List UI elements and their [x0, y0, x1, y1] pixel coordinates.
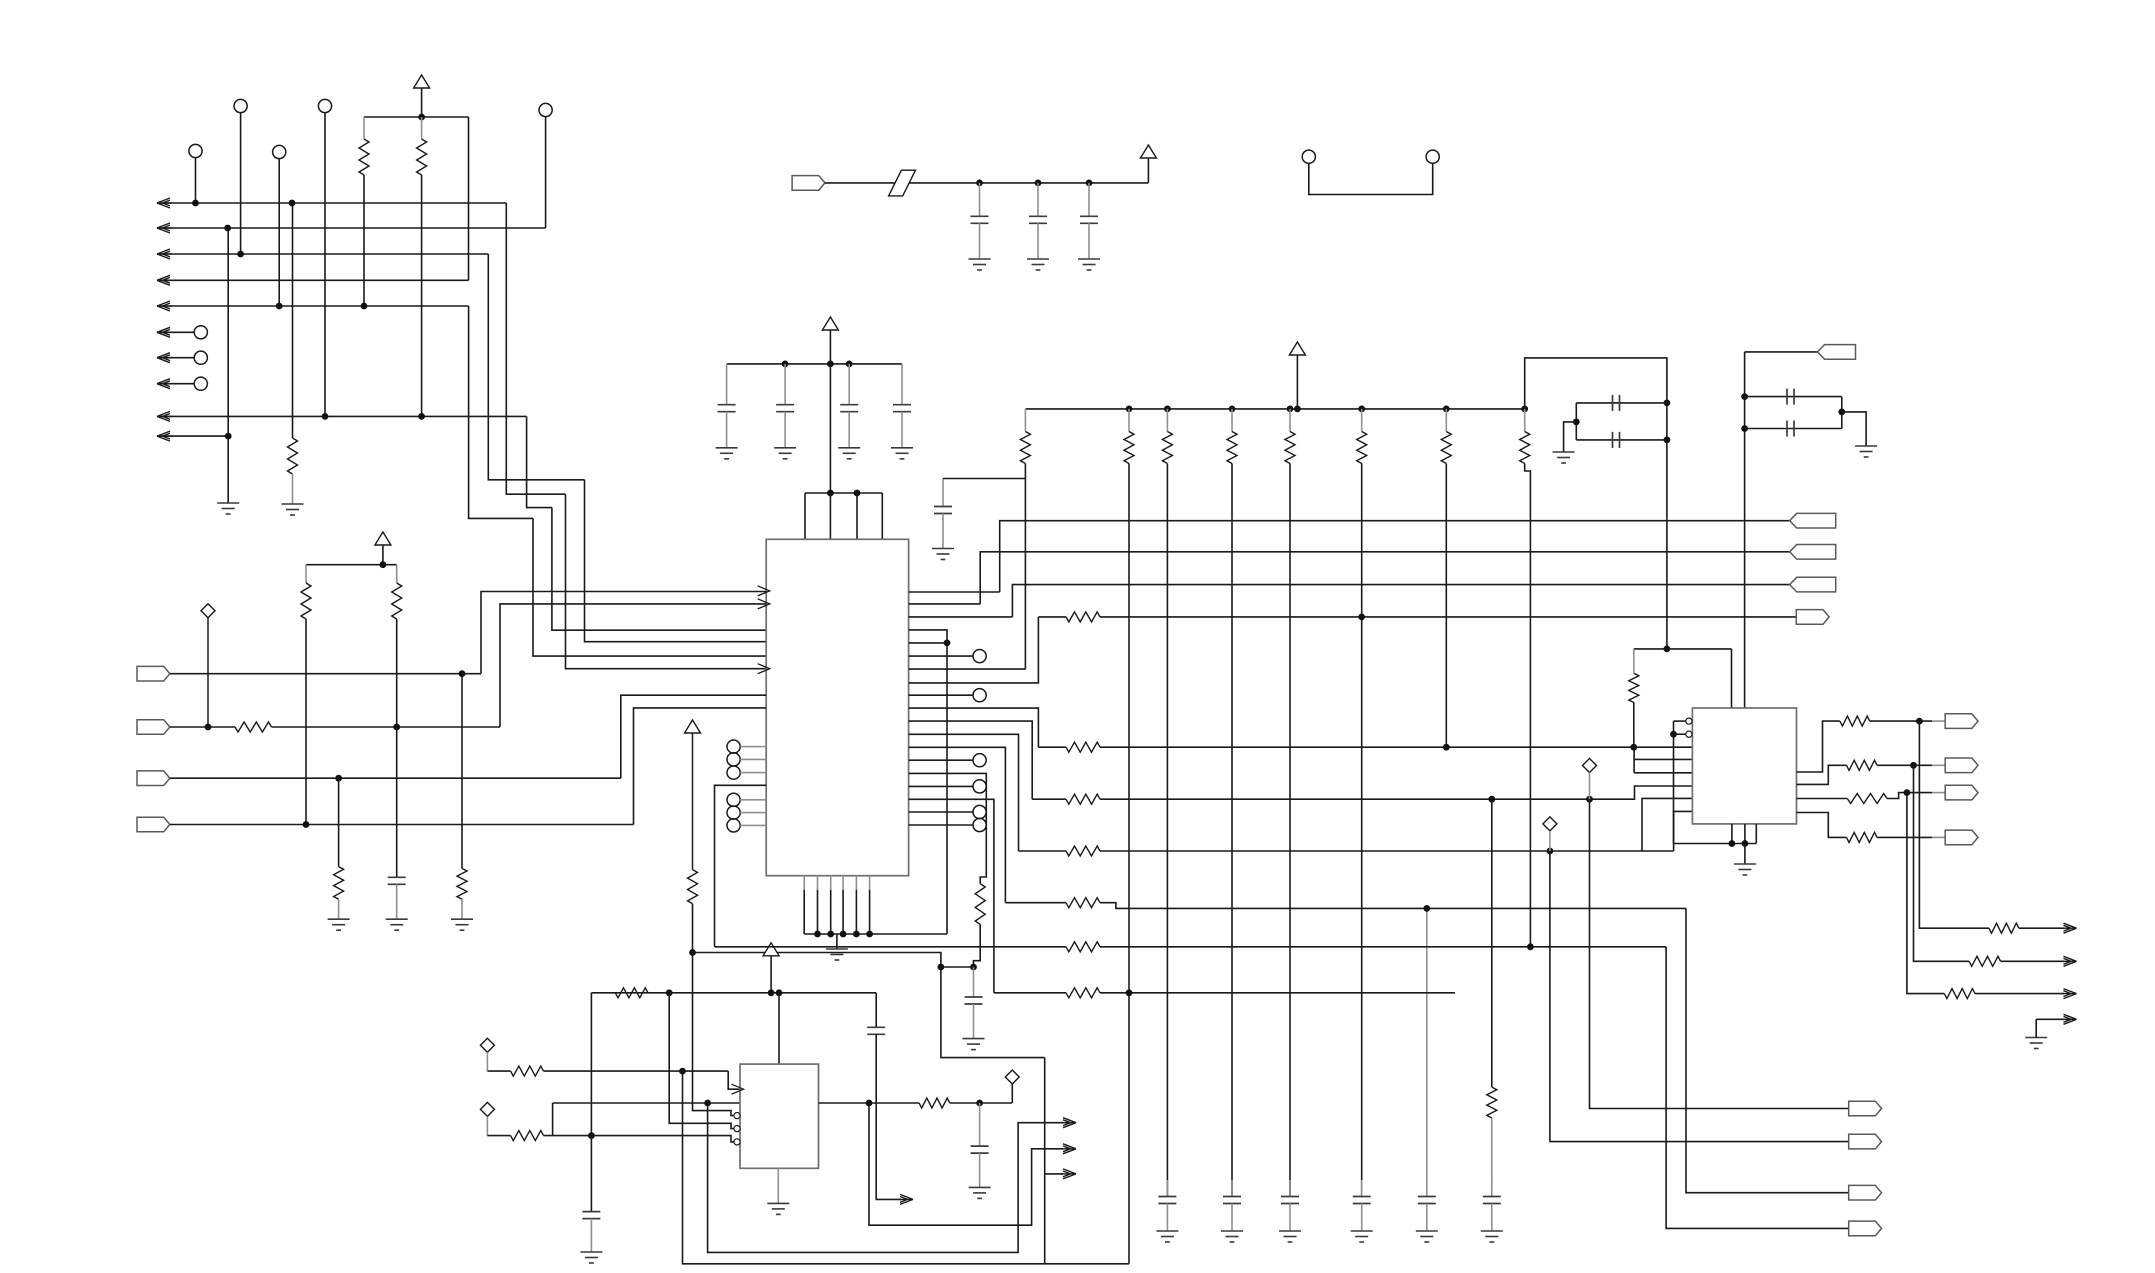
wire enable col [1673, 721, 1675, 843]
off-page diamond D6 [480, 1102, 494, 1116]
junction [666, 989, 673, 996]
power VCC U1 [822, 317, 838, 330]
wire U3 top pin1 [1731, 649, 1733, 708]
ground [1027, 259, 1049, 270]
wire C10 to col1 [943, 478, 1025, 480]
net tag in1 [137, 666, 170, 681]
wire gnd stem [1744, 844, 1746, 865]
ground [1221, 1231, 1243, 1242]
wire cap pair left [1575, 403, 1577, 440]
wire bubble2 [1674, 733, 1686, 735]
wire line4 [157, 279, 469, 281]
wire U1 pin to row6 [715, 785, 767, 947]
junction [1741, 425, 1748, 432]
resistor R10 [511, 1066, 544, 1076]
wire U1 rpin1 [909, 591, 1000, 593]
wire line6 staircase [527, 416, 552, 507]
ground [1416, 1231, 1438, 1242]
ground [451, 919, 473, 930]
wire NC stub [157, 383, 194, 385]
junction [418, 413, 425, 420]
resistor rail R25 [1361, 409, 1363, 432]
terminal TP1 [234, 99, 247, 112]
capacitor C15 plates [1613, 395, 1620, 411]
capacitor bank top [979, 183, 981, 216]
ground U3 [1734, 864, 1756, 875]
off-page diamond D1 [201, 604, 215, 618]
junction [361, 303, 368, 310]
wire [1877, 836, 1932, 838]
resistor zig [1357, 432, 1367, 464]
arrow line7 [157, 431, 172, 441]
capacitor C [1080, 216, 1098, 223]
wire U2 pin2 line [553, 1102, 740, 1104]
wire gnd stem [836, 934, 838, 949]
junction [1527, 943, 1534, 950]
junction [1126, 406, 1133, 413]
wire out1 branch [1919, 721, 1989, 928]
net tag row6 [1849, 1221, 1882, 1236]
junction [976, 180, 983, 187]
wire to U1 pin5 [533, 518, 766, 656]
terminal TP5 [273, 145, 286, 158]
resistor row5 [1066, 898, 1100, 908]
arrow line1 [157, 198, 172, 208]
wire vcc to U1 [829, 364, 831, 493]
junction [459, 670, 466, 677]
wire row6 a [715, 946, 1067, 948]
wire line1 staircase [506, 203, 565, 494]
capacitor C12 [590, 1136, 592, 1212]
terminal NC [194, 377, 207, 390]
terminal [973, 689, 986, 702]
capacitor C18 plates [1787, 421, 1794, 437]
junction [289, 200, 296, 207]
wire cap pair right [1841, 397, 1843, 429]
resistor R4 zig [301, 583, 311, 619]
wire diamondA to tag [1590, 799, 1849, 1108]
wire [1870, 720, 1932, 722]
junction [1547, 848, 1554, 855]
wire row2 a [1038, 746, 1066, 748]
wire pullup node [693, 953, 941, 968]
wire rail to U3 feed [1525, 358, 1667, 649]
wire [487, 1135, 510, 1137]
capacitor C [718, 405, 736, 412]
inverted pin bubble U2 [734, 1113, 740, 1119]
capacitor plates [1353, 1197, 1371, 1204]
resistor R18 [1847, 760, 1878, 770]
clock pin mark U1 [758, 586, 770, 596]
capacitor column [1426, 1180, 1428, 1197]
wire to GND1 [227, 228, 229, 503]
junction [1086, 180, 1093, 187]
capacitor column [1491, 1180, 1493, 1197]
junction [1423, 905, 1430, 912]
wire clk out1 [708, 1103, 1063, 1252]
wire to U3 pin6 [1674, 811, 1693, 851]
wire col2 low [1128, 993, 1130, 1264]
junction [1287, 406, 1294, 413]
net tag out1 [1945, 714, 1978, 729]
wire node column [1044, 1058, 1046, 1264]
wire to U3 pin5 [1642, 798, 1692, 851]
wire rail down to line4 [468, 117, 470, 280]
wire line2 [157, 227, 546, 229]
terminal [973, 780, 986, 793]
junction [827, 490, 834, 497]
junction [1664, 646, 1671, 653]
wire net tagB [980, 552, 1789, 604]
arrow line5 [157, 301, 172, 311]
power VCC U2 [763, 943, 779, 956]
wire U1 rpin13 to row5 [909, 747, 1006, 902]
resistor R22 [1847, 832, 1878, 842]
junction [1488, 796, 1495, 803]
capacitor C16 plates [1613, 432, 1620, 448]
junction [224, 225, 231, 232]
resistor R1 [363, 117, 365, 139]
wire row2 drop [1633, 747, 1635, 773]
ground [1481, 1231, 1503, 1242]
capacitor C [893, 405, 911, 412]
clock pin mark U1 [758, 599, 770, 609]
resistor R12 [688, 870, 698, 904]
wire [1745, 396, 1842, 398]
wire tag feed [1745, 351, 1818, 353]
resistor R7 zig [457, 868, 467, 899]
wire [2001, 960, 2064, 962]
terminal [973, 650, 986, 663]
resistor zig [1020, 432, 1030, 464]
terminal NC [194, 351, 207, 364]
net tag out2 [1945, 758, 1978, 773]
capacitor C [1029, 216, 1047, 223]
inverted pin bubble U3 [1686, 718, 1692, 724]
wire U1 rpin6 [909, 655, 973, 657]
wire U3 bpin1 [1731, 824, 1733, 844]
ground [963, 1039, 985, 1050]
wire row5 b [1100, 903, 1686, 909]
wire [1745, 428, 1842, 430]
junction [1664, 400, 1671, 407]
wire osc clk line [544, 1070, 729, 1072]
net tag row1 [1796, 610, 1829, 625]
terminal [973, 754, 986, 767]
arrow line2 [157, 223, 172, 233]
resistor R15 zig [1487, 1087, 1497, 1118]
resistor R14 [1633, 649, 1635, 674]
resistor row4 [1066, 846, 1100, 856]
power VCC rail [1289, 342, 1305, 355]
capacitor C17 plates [1787, 389, 1794, 405]
wire line7 [157, 435, 228, 437]
wire U1 rpin17 to row7 [909, 799, 994, 993]
wire jumper [1309, 163, 1433, 194]
wire U1 rpin10 to row2 [909, 708, 1039, 747]
capacitor plates [1281, 1197, 1299, 1204]
wire R8 to node [974, 924, 981, 967]
junction [1443, 406, 1450, 413]
wire line5 staircase [469, 306, 533, 518]
capacitor C11 plates [867, 1027, 885, 1034]
wire to U3 pin2 [1634, 758, 1692, 760]
wire stem [1296, 355, 1298, 409]
power VCC top-left [414, 75, 430, 88]
wire U1 vcc rail [727, 363, 902, 365]
wire in4 [170, 824, 634, 826]
wire to diamond [1011, 1084, 1013, 1103]
junction [1586, 796, 1593, 803]
wire NC stub [157, 357, 194, 359]
wire [2036, 1018, 2064, 1020]
wire U1 rpin2 [909, 603, 981, 605]
wire in2 a [170, 726, 235, 728]
capacitor C12 plates [582, 1212, 600, 1219]
capacitor C9 [973, 967, 975, 997]
wire into U2 clk [728, 1071, 740, 1089]
net tag row5 [1849, 1185, 1882, 1200]
ground [386, 919, 408, 930]
wire in2 b [272, 726, 501, 728]
terminal TP3 [539, 103, 552, 116]
wire U3 out4 [1797, 813, 1847, 838]
wire [487, 1070, 510, 1072]
wire U3 out2 [1797, 765, 1847, 784]
junction [1294, 406, 1301, 413]
wire pullup rail [364, 116, 469, 118]
capacitor C [776, 405, 794, 412]
resistor rail R27 [1524, 409, 1526, 432]
resistor R3 zig [288, 438, 298, 474]
arrow clk out1 [1061, 1118, 1076, 1128]
wire row5 cap col [1426, 908, 1428, 1182]
wire [1576, 439, 1667, 441]
capacitor plates [1158, 1197, 1176, 1204]
wire U1 rpin9 [909, 694, 973, 696]
resistor rail R24 [1289, 409, 1291, 432]
net tag in4 [137, 817, 170, 832]
wire C11 to arrow [876, 1035, 901, 1200]
arrow line6 [157, 411, 172, 421]
resistor zig [1441, 432, 1451, 464]
junction [237, 251, 244, 258]
ground [1553, 452, 1575, 463]
resistor rail R21 [1128, 409, 1130, 432]
wire to U2 bubble3 [591, 1136, 734, 1142]
wire node down [941, 967, 1045, 1058]
junction [1229, 406, 1236, 413]
wire row3 b to U3 pin4 [1100, 786, 1692, 799]
off-page diamond D5 [480, 1038, 494, 1052]
junction [689, 949, 696, 956]
capacitor column [1361, 1180, 1363, 1197]
wire to U3 pin3 [1634, 772, 1692, 774]
off-page diamond D7 [1005, 1070, 1019, 1084]
resistor row6 [1066, 942, 1100, 952]
capacitor U1 vcc [784, 364, 786, 405]
junction [776, 989, 783, 996]
capacitor column [1289, 1180, 1291, 1197]
junction [782, 361, 789, 368]
wire [2035, 1019, 2037, 1037]
ground [1351, 1231, 1373, 1242]
junction [1741, 393, 1748, 400]
ground GND1 [217, 503, 239, 514]
wire xtal col [590, 993, 592, 1136]
power VCC top-center [1140, 145, 1156, 158]
junction [1630, 744, 1637, 751]
inverted pin bubble U2 [734, 1126, 740, 1132]
resistor R7b zig [334, 867, 344, 900]
wire to U2 bubble1 [693, 953, 734, 1116]
ground [1279, 1231, 1301, 1242]
wire to gnd [1842, 412, 1866, 446]
resistor R17 [1989, 923, 2019, 933]
capacitor C13 plates [971, 1146, 989, 1153]
resistor row1 [1066, 612, 1100, 622]
resistor R8 [975, 884, 985, 925]
junction [1521, 406, 1528, 413]
junction [768, 989, 775, 996]
resistor R16 [1840, 716, 1870, 726]
terminal U1 NC [727, 753, 740, 766]
inverted pin bubble U2 [734, 1139, 740, 1145]
wire row3 a [1032, 798, 1066, 800]
resistor R13 [919, 1098, 950, 1108]
ground [891, 448, 913, 459]
wire U1 rpin7 [909, 668, 1026, 670]
wire stem [829, 330, 831, 364]
arrow out2 [2062, 956, 2077, 966]
arrow clk out2 [1061, 1144, 1076, 1154]
off-page diamond DB [1543, 817, 1557, 831]
junction [303, 821, 310, 828]
wire [950, 1102, 1013, 1104]
wire col8 jog down [1525, 464, 1531, 948]
wire TP3 down [545, 117, 547, 228]
wire NC stub [157, 331, 194, 333]
IC U3 [1692, 708, 1796, 824]
wire stem [1147, 158, 1149, 183]
terminal U1 NC [727, 740, 740, 753]
junction [827, 931, 834, 938]
wire [1975, 993, 2064, 995]
wire U1 rpin3 [909, 616, 1013, 618]
wire [544, 1135, 592, 1137]
wire row6 to tag [1666, 947, 1849, 1229]
junction [225, 433, 232, 440]
junction [322, 413, 329, 420]
resistor row3 [1066, 794, 1100, 804]
wire to R3 [292, 203, 294, 438]
junction [866, 931, 873, 938]
junction [1729, 840, 1736, 847]
resistor R19 [1969, 956, 2001, 966]
wire [1877, 764, 1932, 766]
wire to U1 pin4 [585, 480, 767, 642]
junction [1742, 840, 1749, 847]
junction [1664, 437, 1671, 444]
wire row7 b [1100, 992, 1455, 994]
wire row7 a [994, 992, 1066, 994]
terminal J1-B [1426, 150, 1439, 163]
arrow line4 [157, 275, 172, 285]
wire U1 top pin [881, 493, 883, 539]
junction [192, 200, 199, 207]
junction [205, 724, 212, 731]
capacitor C [840, 405, 858, 412]
resistor R2 [421, 117, 423, 139]
junction [1164, 406, 1171, 413]
junction [276, 303, 283, 310]
clock pin mark U1 [758, 664, 770, 674]
inverted pin bubble U3 [1686, 731, 1692, 737]
junction [1443, 744, 1450, 751]
resistor R5 [396, 565, 398, 583]
wire row4 a [1019, 850, 1067, 852]
arrow line3 [157, 249, 172, 259]
junction [976, 1100, 983, 1107]
junction [1035, 180, 1042, 187]
wire clk bottom route [683, 1071, 1130, 1264]
ground U2 [767, 1203, 789, 1214]
wire to U1 pin6 [566, 494, 767, 669]
wire in1 to U1 pin1 [481, 592, 766, 674]
capacitor bank top [1037, 183, 1039, 216]
wire U1 rpin15 to R8 [909, 773, 987, 883]
wire pullup pair rail [306, 564, 397, 566]
resistor zig [1285, 432, 1295, 464]
resistor R20 [1847, 794, 1887, 804]
resistor rail R23 [1231, 409, 1233, 432]
junction [938, 964, 945, 971]
wire U3 out1 [1797, 721, 1840, 772]
junction [944, 640, 951, 647]
wire U1 rpin4 to gnd bus [909, 630, 947, 934]
wire row1 a [1038, 616, 1066, 618]
wire [461, 674, 463, 869]
wire row6 b [1100, 946, 1666, 948]
junction [1916, 718, 1923, 725]
junction [1358, 614, 1365, 621]
resistor rail R20 [1024, 409, 1026, 432]
wire in1 [170, 673, 481, 675]
wire stem [382, 545, 384, 565]
wire clk out2 [869, 1103, 1063, 1225]
resistor R1 zig [359, 139, 369, 175]
resistor R2 zig [417, 139, 427, 175]
clock pin mark U2 [732, 1084, 744, 1094]
junction [866, 1100, 873, 1107]
junction [1670, 731, 1677, 738]
wire U1 top pin [829, 493, 831, 539]
net tag PWR-IN [792, 176, 825, 191]
resistor zig [1227, 432, 1237, 464]
junction [704, 1100, 711, 1107]
ground [580, 1252, 602, 1263]
wire power input [825, 182, 1149, 184]
wire row1 b [1100, 616, 1796, 618]
wire net tagA [1000, 521, 1790, 592]
terminal J1-A [1302, 150, 1315, 163]
wire TP4 down [195, 158, 197, 203]
junction [588, 1132, 595, 1139]
wire line5 [157, 305, 469, 307]
arrow NC [157, 353, 172, 363]
wire power line [591, 992, 876, 994]
arrow out1 [2062, 923, 2077, 933]
